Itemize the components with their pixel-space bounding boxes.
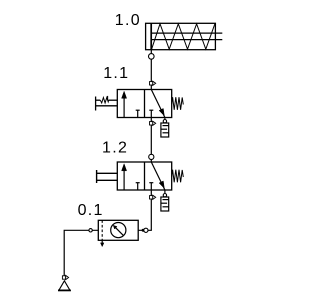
wire: valve 1.2 port 1 down and left to service unit 0.1 [138, 190, 151, 230]
node: service unit 0.1 outlet circle [144, 228, 148, 232]
node: service unit 0.1 inlet circle [89, 229, 92, 232]
valve 1.1 left square blocked port T [136, 110, 140, 117]
wire: air supply to service unit 0.1 inlet [64, 230, 98, 275]
service unit 0.1 drain arrow [101, 240, 103, 243]
svg-text:0.1: 0.1 [78, 202, 104, 219]
valve 1.1 exhaust stub [164, 118, 166, 121]
cylinder 1.0 body [146, 23, 216, 49]
valve 1.1 body [117, 90, 171, 118]
node: valve 1.2 port 2 circle [149, 154, 154, 159]
service unit 0.1 filter dashed line [101, 220, 103, 240]
valve 1.2 right square blocked port T [149, 183, 153, 190]
valve 1.2 left square blocked port T [136, 183, 140, 190]
valve 1.1 return spring [172, 97, 184, 110]
node: valve 1.1 port 1 marker [150, 121, 156, 125]
compressed air source 0.1 supply triangle [59, 281, 70, 290]
valve 1.2 left actuator (plunger) [97, 170, 118, 183]
cylinder 1.0 piston [150, 23, 152, 49]
valve 1.2 left square flow arrow [123, 170, 125, 190]
valve 1.1 left square flow arrow [123, 98, 125, 118]
node: valve 1.2 port 1 marker [150, 195, 156, 199]
service unit 0.1 body [98, 220, 138, 240]
valve 1.1 right square blocked port T [149, 110, 153, 117]
valve 1.1 left actuator (spring-loaded plunger) [96, 97, 118, 111]
valve 1.2 body [117, 162, 171, 190]
node: service unit 0.1 outlet junction dot [142, 229, 145, 232]
valve 1.2 exhaust stub [164, 190, 166, 193]
service unit 0.1 gauge circle [111, 223, 126, 238]
node: air source port marker [62, 275, 68, 279]
cylinder 1.0 piston rod [152, 33, 222, 40]
silencer on valve 1.2 port 3 [163, 194, 166, 197]
node: cylinder 1.0 port circle [149, 54, 155, 60]
valve 1.2 right square diagonal flow path [151, 162, 165, 190]
wire: valve 1.1 port 1 down to valve 1.2 port 2 [150, 118, 152, 163]
valve 1.2 return spring [172, 170, 184, 183]
svg-text:1.1: 1.1 [103, 65, 129, 82]
valve 1.1 right square diagonal flow path [151, 90, 165, 118]
service unit 0.1 regulator arrow [115, 227, 123, 235]
cylinder 1.0 return spring [152, 24, 215, 49]
wire: cylinder 1.0 port down to valve 1.1 [150, 50, 152, 90]
node: valve 1.1 port 2 marker [150, 81, 156, 85]
svg-text:1.2: 1.2 [102, 139, 128, 156]
svg-text:1.0: 1.0 [115, 12, 141, 29]
silencer on valve 1.1 port 3 [163, 120, 166, 123]
